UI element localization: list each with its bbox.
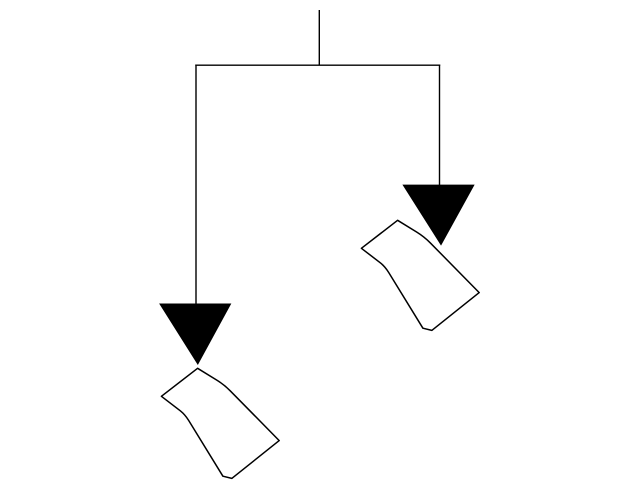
arrowhead: left (filled triangle) xyxy=(160,304,231,364)
wire: top stem vertical xyxy=(318,10,320,65)
node: left quadrilateral sheet xyxy=(161,368,279,478)
wire: horizontal branch bar xyxy=(195,64,440,66)
wire: left branch vertical xyxy=(195,65,197,305)
arrowhead: right (filled triangle) xyxy=(403,185,474,245)
wire: right branch vertical xyxy=(439,65,441,186)
node: right quadrilateral sheet xyxy=(361,220,479,330)
